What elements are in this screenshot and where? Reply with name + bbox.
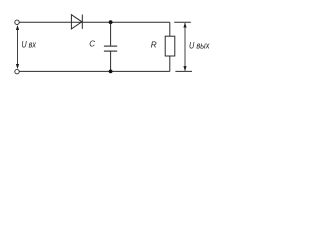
dimension line U vx (between input terminals) — [16, 25, 19, 69]
wire bottom (input terminal to corner) — [19, 70, 169, 72]
svg-text:C: C — [89, 40, 95, 49]
svg-text:U вх: U вх — [22, 39, 37, 50]
svg-text:U вых: U вых — [189, 40, 210, 51]
capacitor C top lead — [110, 22, 112, 46]
node junction top (capacitor tap) — [109, 20, 113, 24]
wire right vertical (load branch) — [169, 22, 171, 71]
svg-text:R: R — [151, 41, 157, 50]
reference bar top (output dimension) — [174, 21, 191, 23]
capacitor C top plate — [104, 45, 117, 47]
diode VD (triangle) — [71, 15, 82, 29]
node junction bottom (capacitor tap) — [109, 70, 113, 74]
capacitor C bottom plate — [104, 50, 117, 52]
terminal input top — [15, 20, 19, 24]
terminal input bottom — [15, 69, 19, 73]
resistor R body — [165, 36, 175, 56]
diode cathode bar — [81, 15, 83, 29]
reference bar bottom (output dimension) — [175, 70, 192, 72]
dimension line U vyx (output) — [183, 23, 186, 72]
wire top (input terminal to corner) — [19, 21, 169, 23]
capacitor C bottom lead — [110, 52, 112, 72]
